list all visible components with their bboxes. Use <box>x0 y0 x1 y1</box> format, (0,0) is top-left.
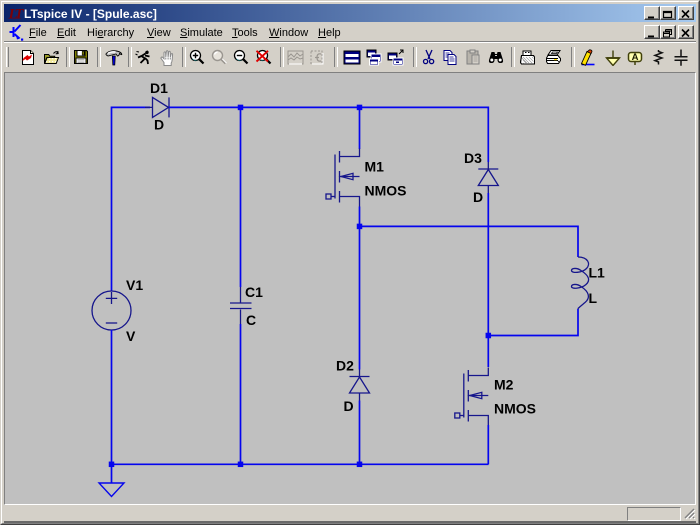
wire left rail lower <box>111 330 113 464</box>
label D2 <box>336 358 354 374</box>
tile horizontal <box>343 49 361 66</box>
junction top rail / C1 <box>238 105 244 111</box>
diode D3 <box>478 162 498 193</box>
wire D3 cathode to top rail <box>487 107 489 163</box>
svg-text:D3: D3 <box>464 150 482 166</box>
menu bar <box>4 22 696 42</box>
wire bottom rail <box>112 463 489 465</box>
svg-text:C: C <box>246 312 256 328</box>
label NMOS (M2 value) <box>494 401 536 417</box>
zoom out <box>233 49 250 66</box>
transistor M1 <box>326 149 360 207</box>
wire top rail right <box>169 106 489 108</box>
svg-text:LT: LT <box>8 7 24 21</box>
junction top rail / M1 drain <box>357 105 363 111</box>
svg-text:A: A <box>632 52 639 63</box>
spice netlist (disabled) <box>309 49 326 66</box>
tile vertical <box>387 49 405 66</box>
svg-text:D: D <box>473 189 483 205</box>
status bar <box>4 505 696 521</box>
zoom full extents <box>255 49 273 66</box>
ground <box>99 464 124 496</box>
label C (C1 value) <box>246 312 256 328</box>
capacitor icon <box>673 49 689 66</box>
junction bottom rail / ground <box>109 462 115 468</box>
wire L1 bottom to M2 drain junction <box>489 309 579 336</box>
wire D3 anode down across mid rail to M2 drain junction <box>487 193 489 336</box>
label NMOS (M1 value) <box>365 183 407 199</box>
waveform (disabled) <box>287 49 304 66</box>
paste (disabled) <box>465 49 482 66</box>
wire D2 cathode from mid rail <box>359 226 361 369</box>
cascade <box>365 49 383 66</box>
label D (D1 value) <box>154 117 164 133</box>
halt (hand, disabled) <box>158 49 176 66</box>
wire M1 source to mid rail <box>359 207 361 227</box>
label M2 <box>494 377 514 393</box>
label V (V1 value) <box>126 328 136 344</box>
svg-text:C1: C1 <box>245 284 263 300</box>
svg-text:D1: D1 <box>150 80 168 96</box>
wire top rail left <box>112 106 151 108</box>
svg-text:L1: L1 <box>589 265 606 281</box>
resistor icon <box>650 49 666 66</box>
wire M2 drain <box>487 336 489 368</box>
control panel (hammer) <box>104 49 124 66</box>
transistor M2 <box>455 368 489 426</box>
zoom back (disabled) <box>211 49 228 66</box>
svg-text:D: D <box>154 117 164 133</box>
ground icon <box>603 49 623 66</box>
capacitor C1 <box>230 287 252 324</box>
svg-text:D2: D2 <box>336 358 354 374</box>
junction bottom rail / C1 <box>238 462 244 468</box>
svg-text:M2: M2 <box>494 377 514 393</box>
diode D1 <box>145 97 176 117</box>
label L (L1 value) <box>589 290 598 306</box>
diode D2 <box>350 370 370 401</box>
svg-text:NMOS: NMOS <box>365 183 407 199</box>
svg-text:L: L <box>589 290 598 306</box>
label D (D3 value) <box>473 189 483 205</box>
svg-text:V: V <box>126 328 136 344</box>
zoom in <box>189 49 206 66</box>
wire mid rail <box>360 226 579 257</box>
open <box>43 49 61 66</box>
svg-text:D: D <box>344 398 354 414</box>
new schematic <box>20 49 36 66</box>
label C1 <box>245 284 263 300</box>
label D1 <box>150 80 168 96</box>
svg-text:NMOS: NMOS <box>494 401 536 417</box>
wire (pencil) <box>578 49 596 66</box>
wire C1 branch lower <box>240 324 242 464</box>
wire M1 drain <box>359 107 361 150</box>
wire M2 source to bottom rail <box>487 425 489 464</box>
voltage source V1 <box>92 291 131 330</box>
label D (D2 value) <box>344 398 354 414</box>
wire left rail upper <box>111 107 113 292</box>
inductor L1 <box>572 257 589 309</box>
label D3 <box>464 150 482 166</box>
svg-text:M1: M1 <box>365 159 385 175</box>
junction M1 source / mid rail / D2 <box>357 224 363 230</box>
svg-text:V1: V1 <box>126 277 143 293</box>
cut <box>421 49 437 66</box>
label M1 <box>365 159 385 175</box>
run <box>134 49 152 66</box>
find <box>487 49 505 66</box>
junction bottom rail / D2 <box>357 462 363 468</box>
wire D2 anode to bottom rail <box>359 401 361 465</box>
label L1 <box>589 265 606 281</box>
junction D3 anode / L1 / M2 drain <box>486 333 492 339</box>
print preview <box>519 49 537 66</box>
toolbar <box>4 43 696 72</box>
wire C1 branch upper <box>240 107 242 288</box>
save <box>73 49 89 66</box>
copy <box>442 49 459 66</box>
print <box>545 49 563 66</box>
label A icon <box>626 49 644 66</box>
title bar <box>4 4 696 22</box>
label V1 <box>126 277 143 293</box>
